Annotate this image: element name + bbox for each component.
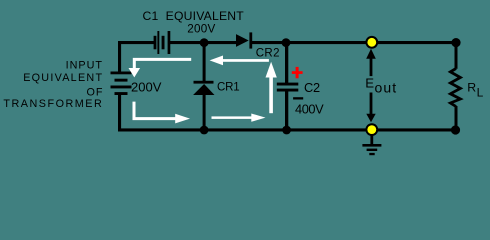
label RL xyxy=(467,81,483,100)
wire right vertical (below resistor) xyxy=(455,106,458,132)
label INPUT EQUIVALENT OF TRANSFORMER xyxy=(3,59,103,110)
svg-text:E: E xyxy=(365,76,374,91)
wire C2 branch vertical top xyxy=(285,41,288,83)
Eout arrow up (from label to top node) xyxy=(366,49,376,76)
junction node CR1 top xyxy=(200,38,209,47)
wire CR1 branch vertical bottom xyxy=(203,95,206,132)
white arrow: vertical pointing up (left of C2) xyxy=(266,62,277,113)
svg-text:out: out xyxy=(375,80,398,96)
svg-text:OF: OF xyxy=(87,86,104,98)
wire bottom horizontal xyxy=(118,128,458,131)
white arrow: top-middle pointing left (under CR2) xyxy=(210,56,269,66)
svg-text:CR2: CR2 xyxy=(256,47,280,59)
white arrow: bottom-middle pointing right xyxy=(212,114,266,122)
plus sign (red) at C2 xyxy=(292,67,303,78)
wire CR1 branch vertical top xyxy=(203,41,206,82)
node Eout bottom / ground (yellow) xyxy=(365,123,378,136)
svg-text:INPUT: INPUT xyxy=(66,59,103,71)
wire left vertical (bottom segment below battery) xyxy=(118,95,121,132)
minus sign at C2 xyxy=(293,97,303,99)
ground symbol xyxy=(362,134,381,155)
white arrow: top-left loop (left then down through source) xyxy=(129,59,192,77)
junction node CR1 bottom xyxy=(200,126,209,135)
battery input equivalent of transformer (vertical, left wire) xyxy=(111,72,132,96)
wire top horizontal (C1 to CR2) xyxy=(170,41,236,44)
junction node C2 bottom xyxy=(282,126,291,135)
svg-text:R: R xyxy=(467,81,476,95)
resistor RL zigzag xyxy=(450,69,460,107)
capacitor C1 (battery-style symbol, horizontal, top wire) xyxy=(154,31,171,54)
diode CR2 (horizontal, pointing right, top wire) xyxy=(236,32,252,48)
label Eout xyxy=(365,76,397,96)
svg-text:TRANSFORMER: TRANSFORMER xyxy=(3,98,103,110)
white arrow: bottom-left loop (down then right) xyxy=(134,102,190,124)
svg-text:L: L xyxy=(477,86,484,100)
svg-text:200V: 200V xyxy=(187,23,215,36)
junction node top-right corner xyxy=(451,38,460,47)
svg-text:400V: 400V xyxy=(295,102,324,117)
wire left vertical (top segment above battery) xyxy=(118,41,121,73)
junction node C2 top xyxy=(282,38,291,47)
capacitor C2 (vertical) xyxy=(277,83,299,92)
svg-text:C2: C2 xyxy=(304,80,320,95)
svg-text:EQUIVALENT: EQUIVALENT xyxy=(23,72,103,84)
wire top horizontal (left corner to C1) xyxy=(118,41,154,44)
Eout arrow down (from label to bottom node) xyxy=(366,93,375,123)
svg-text:200V: 200V xyxy=(131,80,162,95)
wire top horizontal (CR2 to top-right corner) xyxy=(252,41,458,44)
diode CR1 (vertical, anode bottom, cathode top) xyxy=(193,81,214,95)
svg-text:C1 EQUIVALENT: C1 EQUIVALENT xyxy=(143,9,245,23)
wire C2 branch vertical bottom xyxy=(285,91,288,132)
svg-text:CR1: CR1 xyxy=(217,81,239,93)
junction node bottom-right corner xyxy=(451,125,460,134)
wire right vertical (above resistor) xyxy=(455,41,458,69)
node Eout top (yellow) xyxy=(365,36,378,49)
